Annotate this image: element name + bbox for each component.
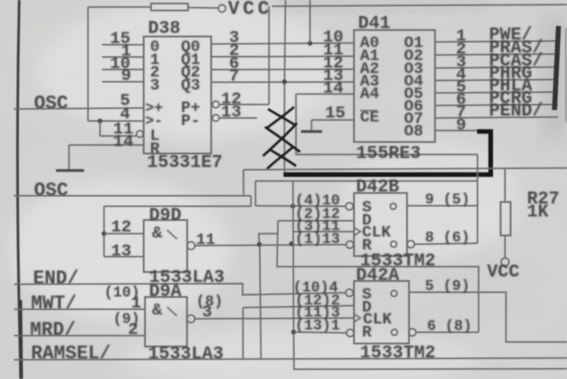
wire D38 pin 1 input stub — [102, 56, 144, 58]
junction A0 row / top vertical — [308, 41, 313, 46]
wire D38 pin 9 input stub — [102, 81, 144, 83]
junction A3 row / vertical — [282, 79, 287, 84]
wire D9A pin 3 output to D42A CLK — [194, 317, 354, 320]
svg-text:7: 7 — [229, 67, 239, 86]
D42A CLK edge triangle — [354, 314, 361, 322]
svg-text:D9D: D9D — [149, 206, 182, 226]
wire O1 output net PWE/ — [435, 41, 558, 42]
svg-text:13: 13 — [221, 104, 241, 123]
svg-text:12: 12 — [111, 219, 131, 238]
svg-text:D9A: D9A — [149, 282, 182, 302]
D42A S input bubble — [346, 289, 353, 296]
resistor R27 body — [501, 202, 511, 236]
svg-text:11: 11 — [196, 231, 215, 249]
svg-text:1533TM2: 1533TM2 — [360, 344, 436, 364]
svg-text:END/: END/ — [33, 268, 79, 290]
wire D9D pin 12 input — [104, 233, 144, 235]
D42B Q inner mark — [390, 203, 396, 209]
svg-text:1533LA3: 1533LA3 — [148, 345, 224, 365]
svg-text:MRD/: MRD/ — [30, 319, 76, 341]
wire D38 R input — [69, 144, 144, 146]
D9D symbol tail stroke — [167, 230, 177, 239]
D9D output inversion bubble — [187, 242, 195, 250]
svg-text:D38: D38 — [148, 19, 180, 39]
wire D42A Q output (pin 5) to right edge — [409, 292, 567, 342]
junction pin11 net / outer drop — [257, 242, 262, 247]
handwritten X mark 3 — [267, 147, 296, 169]
svg-text:14: 14 — [323, 80, 343, 99]
svg-text:PEND/: PEND/ — [489, 102, 543, 122]
D42A Qbar inner mark — [391, 329, 397, 335]
D42A R input bubble — [347, 329, 354, 336]
svg-text:&: & — [152, 302, 163, 321]
wire OSC branch corner down — [250, 196, 252, 207]
wire D42B S input — [256, 205, 347, 208]
svg-text:1K: 1K — [527, 203, 549, 223]
wire RAMSEL branch up to D42A D row — [242, 308, 244, 359]
svg-text:8 (6): 8 (6) — [425, 230, 470, 247]
svg-text:3: 3 — [150, 77, 160, 95]
VCC rail to right edge — [272, 5, 567, 7]
P- output inversion bubble — [212, 115, 219, 122]
NAND gate D9D body — [144, 220, 188, 272]
svg-text:MWT/: MWT/ — [31, 293, 77, 315]
svg-text:D42A: D42A — [356, 266, 399, 286]
wire long vertical x293 with bottom run — [293, 181, 567, 369]
junction D42A R row / x293 vertical — [291, 330, 296, 335]
wire END/ to D42A S input — [14, 284, 346, 295]
CE overbar — [360, 110, 377, 112]
handwritten X mark 2 — [263, 123, 300, 156]
wire feedback vertical to A4 loop — [477, 155, 479, 244]
wire R27 bottom to VCC terminal — [504, 236, 506, 259]
svg-text:D42B: D42B — [356, 178, 399, 198]
wire D38 pin 15 input stub — [102, 44, 144, 46]
D9A symbol tail stroke — [167, 307, 177, 316]
wire D38 pin 10 input stub — [102, 69, 144, 71]
svg-text:CE: CE — [360, 109, 379, 127]
wire thin run above thick net — [256, 180, 478, 182]
border frame lower thickening — [18, 300, 23, 379]
wire vertical from top edge to A0 junction — [309, 0, 311, 43]
svg-text:Q3: Q3 — [181, 77, 200, 95]
wire resistor left to vertical riser — [88, 6, 151, 8]
D42B S input bubble — [346, 203, 353, 210]
D9A output inversion bubble — [187, 315, 195, 323]
wire OSC lower from border — [14, 195, 251, 197]
wire MRD/ to D9A pin 2 — [14, 335, 145, 337]
svg-text:&: & — [152, 225, 163, 244]
D42A Q inner mark — [391, 291, 397, 297]
wire Q3 to A3 (net row4) — [212, 81, 355, 83]
wire Q1 to A1 (net row2) — [212, 55, 355, 58]
wire D42A Qbar output (pin 6) — [416, 331, 479, 333]
svg-text:OSC: OSC — [34, 180, 68, 202]
svg-text:9 (5): 9 (5) — [425, 192, 470, 209]
svg-text:VCC: VCC — [228, 0, 273, 20]
svg-text:O8: O8 — [404, 123, 423, 141]
NAND gate D9A body — [145, 297, 187, 347]
svg-text:155RE3: 155RE3 — [356, 144, 421, 164]
page right edge line — [565, 28, 567, 122]
wire to D38 L input — [100, 135, 136, 137]
junction D9D pin12 tie — [102, 231, 107, 236]
wire O2 output net PRAS/ — [435, 54, 558, 55]
wire A4 feedback loop below D41 — [296, 94, 478, 155]
svg-text:P-: P- — [181, 112, 200, 130]
wire O7 output net PEND/ — [435, 117, 558, 118]
D42B CLK edge triangle — [354, 228, 361, 236]
wire D42B Qbar output (pin 8) — [414, 243, 477, 244]
wire D9D pin 11 output to D42B R — [194, 245, 346, 246]
wire A4 input — [296, 93, 354, 95]
wire D42B Q output (pin 9) — [407, 205, 478, 207]
svg-text:3: 3 — [202, 304, 212, 323]
wire RAMSEL/ long run to right edge — [14, 358, 567, 360]
wire CE down to common bar — [311, 120, 313, 130]
svg-text:A4: A4 — [360, 85, 380, 103]
D42B R input bubble — [346, 241, 353, 248]
svg-text:5 (9): 5 (9) — [425, 278, 470, 295]
wire Q0 to A0 (net row1) — [212, 43, 355, 44]
flip-flop D42A body — [354, 281, 409, 344]
wire CE input — [312, 119, 355, 121]
ground bar (common) for D38 R — [56, 169, 84, 172]
wire drop to D42B S row — [255, 181, 257, 206]
wire OSC to D38 pin 5 (+) — [14, 108, 144, 109]
svg-text:13: 13 — [111, 243, 131, 262]
wire MWT/ to D9A pin 1 — [14, 308, 145, 310]
wire branch down to L input — [99, 121, 101, 136]
svg-text:2: 2 — [128, 321, 138, 340]
wire O6 output net PCRG — [435, 105, 558, 106]
D42B Qbar inner mark — [391, 241, 397, 247]
wire D42A D input — [243, 306, 354, 308]
wire OSC branch to D9D inputs — [104, 205, 251, 207]
svg-text:14: 14 — [113, 133, 133, 152]
svg-text:VCC: VCC — [487, 263, 520, 283]
P+ output inversion bubble — [212, 101, 219, 108]
flip-flop D42B body — [354, 193, 407, 256]
wire riser down to D38 pin 4 — [87, 7, 89, 121]
svg-text:D41: D41 — [358, 14, 391, 34]
wire O4 output net PHRG — [435, 80, 558, 81]
junction pin11 net / x293 vertical — [289, 241, 294, 246]
wire R input down to common bar — [68, 145, 70, 170]
wire riser P+ up to VCC rail — [268, 6, 270, 104]
D42B Qbar output bubble — [407, 241, 414, 248]
wire D42A R input — [294, 331, 347, 334]
svg-text:(1)13: (1)13 — [295, 231, 340, 248]
junction pin4 / L-input branch — [98, 119, 103, 124]
border frame left edge — [17, 0, 20, 379]
bus edge vertical (page fold mark) — [555, 26, 559, 110]
ground bar (common) for CE — [301, 130, 322, 133]
wire O8 output (pin 9) to thick net — [435, 130, 478, 132]
wire P- stub — [219, 117, 257, 119]
resistor R (pull-up to VCC) — [151, 4, 188, 11]
decoder D41 body — [354, 30, 435, 142]
VCC terminal circle — [218, 5, 225, 12]
D42A Qbar output bubble — [409, 329, 416, 336]
VCC terminal circle (lower) — [501, 258, 509, 266]
L input inversion bubble — [136, 131, 143, 138]
svg-text:6 (8): 6 (8) — [427, 318, 472, 335]
svg-text:R: R — [362, 324, 372, 342]
wire vertical to D9D input pins — [103, 206, 105, 256]
wire OSC long run to right edge — [244, 168, 567, 170]
wire D42B CLK input — [293, 231, 354, 233]
handwritten X mark 1 — [267, 107, 295, 128]
wire resistor to VCC terminal — [188, 7, 218, 10]
junction S row / x293 vertical — [291, 204, 296, 209]
wire OSC riser up — [243, 170, 245, 196]
svg-text:RAMSEL/: RAMSEL/ — [31, 342, 111, 364]
wire vertical from top edge through A3 junction down to thick net — [285, 0, 286, 176]
svg-text:OSC: OSC — [34, 92, 68, 114]
wire D38 pin 4 (-) input — [88, 120, 144, 122]
wire O3 output net PCAS/ — [435, 67, 558, 68]
wire O5 output net PHLA — [435, 92, 558, 93]
counter D38 body — [144, 37, 212, 154]
wire stub from D-row vertical down to pin11 net — [259, 234, 279, 245]
wire D-row drop to cross run — [277, 221, 479, 332]
wire P+ to VCC rail riser — [219, 104, 269, 106]
wire D9D pin 13 input — [104, 256, 144, 258]
svg-text:9: 9 — [121, 67, 131, 86]
thick hand-drawn wire from O8 down-left — [284, 132, 491, 175]
svg-text:15331E7: 15331E7 — [147, 153, 223, 173]
wire R27 top to OSC run — [504, 169, 506, 202]
svg-text:9: 9 — [456, 117, 466, 136]
wire outer drop from pin11 junction — [260, 245, 261, 359]
wire D42B D input — [278, 220, 354, 222]
wire Q2 to A2 (net row3) — [212, 68, 355, 70]
